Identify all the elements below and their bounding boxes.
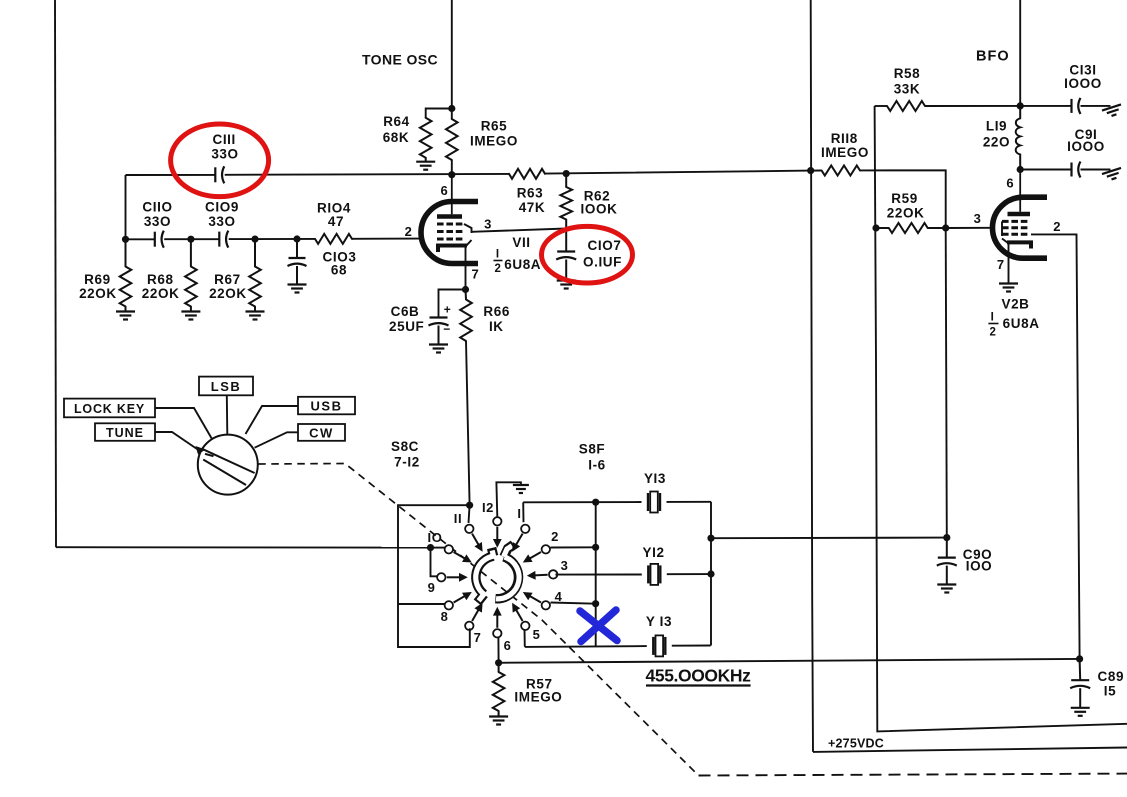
svg-text:7-I2: 7-I2 (394, 454, 420, 469)
tube V11 plate (pin 6) (437, 214, 462, 219)
svg-text:S8F: S8F (579, 442, 606, 457)
svg-text:IMEGO: IMEGO (470, 134, 518, 149)
wire contact 8 stub (398, 603, 445, 605)
wire S8F vertical (595, 502, 597, 646)
resistor R62 (565, 174, 567, 187)
tube V11 envelope (421, 202, 478, 264)
wire S8C left box (398, 505, 470, 647)
svg-text:USB: USB (311, 399, 343, 414)
junction node contact6/R57 (495, 659, 502, 666)
wire C91 to ground (1081, 169, 1111, 171)
wire contact 5 stub (524, 629, 526, 647)
svg-text:LI9: LI9 (986, 119, 1007, 134)
svg-text:IOO: IOO (966, 559, 993, 574)
tube V2B plate (pin 6) (1008, 212, 1031, 217)
svg-text:6U8A: 6U8A (1003, 316, 1040, 331)
svg-text:CIO7: CIO7 (588, 238, 622, 253)
capacitor C91 (1072, 162, 1081, 178)
junction node C90 top (943, 534, 950, 541)
capacitor C107 (565, 229, 567, 252)
wire left border vertical (55, 0, 56, 547)
blue X annotation (580, 610, 617, 642)
svg-text:S8C: S8C (391, 439, 419, 454)
svg-text:8: 8 (441, 609, 449, 624)
svg-text:II: II (454, 511, 462, 526)
svg-text:7: 7 (471, 267, 479, 282)
wire R59 to V2B pin 3 (946, 227, 990, 229)
svg-text:V2B: V2B (1001, 297, 1029, 312)
svg-text:33O: 33O (211, 147, 238, 162)
capacitor C6B (429, 318, 449, 326)
junction node R59 right (942, 224, 949, 231)
svg-text:68: 68 (331, 263, 347, 278)
ground under C90 (937, 585, 956, 593)
wire crystal bottom row (Y13) (525, 646, 711, 647)
crystal Y13 top (648, 492, 660, 513)
label box TUNE (95, 423, 155, 441)
svg-text:33O: 33O (208, 214, 235, 229)
capacitor C110 (155, 231, 164, 248)
svg-text:R68: R68 (147, 272, 174, 287)
ground under R69 (116, 312, 135, 320)
leader CW (255, 432, 298, 447)
svg-text:22OK: 22OK (79, 286, 117, 301)
resistor R65 (446, 119, 458, 160)
junction node C89 top (1076, 655, 1083, 662)
resistor R59 (876, 227, 889, 229)
svg-text:6U8A: 6U8A (504, 257, 541, 272)
svg-text:R63: R63 (517, 186, 544, 201)
svg-text:6: 6 (1006, 176, 1014, 191)
capacitor C131 (1072, 98, 1081, 114)
wire contact 12 to ground (496, 482, 521, 517)
resistor R63 (509, 169, 545, 179)
svg-text:RII8: RII8 (831, 131, 858, 146)
wire R66 to S8C contact 11 (466, 341, 470, 505)
wire crystal bus to C90 (711, 537, 947, 540)
svg-text:6: 6 (504, 638, 512, 653)
svg-text:TONE OSC: TONE OSC (362, 52, 438, 68)
junction node Y12 right (707, 570, 714, 577)
svg-text:VII: VII (512, 235, 530, 250)
svg-text:33K: 33K (894, 82, 921, 97)
label box CW (298, 424, 345, 441)
wire pin7 to C6B (439, 290, 466, 318)
wire C111 branch vertical (125, 175, 127, 239)
wire BFO left vertical (+275VDC feed) (811, 0, 813, 752)
svg-text:7: 7 (474, 630, 482, 645)
leader USB (246, 406, 299, 434)
wire crystal middle row (Y12) (555, 573, 711, 576)
junction node R64/R65 top (448, 105, 455, 112)
svg-text:YI2: YI2 (643, 545, 665, 560)
leader LSB (226, 395, 229, 434)
svg-text:Y I3: Y I3 (646, 614, 672, 629)
svg-text:LSB: LSB (211, 379, 242, 394)
svg-text:+: + (444, 303, 452, 317)
wire V11 pin3 to C107 (472, 229, 567, 232)
resistor R67 (254, 239, 256, 266)
capacitor C109 (219, 231, 228, 248)
svg-text:R58: R58 (894, 66, 921, 81)
svg-text:2: 2 (405, 224, 413, 239)
svg-text:5: 5 (533, 627, 541, 642)
tube V2B envelope (992, 197, 1047, 258)
svg-text:I: I (517, 506, 521, 521)
svg-text:I5: I5 (1104, 683, 1116, 698)
svg-text:O.IUF: O.IUF (583, 254, 622, 269)
svg-text:I2: I2 (482, 500, 494, 515)
svg-text:47K: 47K (519, 200, 546, 215)
resistor R64 (420, 118, 432, 158)
ground under R68 (181, 312, 200, 320)
svg-text:I: I (496, 249, 500, 261)
wire C131 to ground (1081, 105, 1111, 107)
label box USB (298, 397, 355, 415)
capacitor C90 (946, 538, 948, 558)
wire C131 stub (1020, 105, 1071, 107)
svg-text:R69: R69 (84, 272, 111, 287)
svg-text:IOOK: IOOK (581, 201, 618, 216)
label box LSB (199, 377, 253, 396)
svg-text:CIIO: CIIO (142, 200, 172, 215)
svg-text:C89: C89 (1098, 669, 1125, 684)
svg-text:R66: R66 (483, 304, 510, 319)
wire V2B cathode to ground (1008, 242, 1010, 283)
junction node contact4/S8F vertical (592, 600, 599, 607)
tube V2B grid bracket (1002, 221, 1008, 243)
wire R118/R58 vertical (875, 106, 876, 360)
rotary switch contacts with arrows (493, 517, 501, 525)
capacitor C89 (1079, 659, 1082, 680)
wire R59 right vertical to C90 (946, 228, 947, 538)
wire contact 4 stub (551, 603, 596, 604)
knob pointer tip (196, 446, 206, 455)
svg-text:22O: 22O (983, 135, 1010, 150)
wire contact 2 stub (551, 546, 596, 548)
wire +275VDC rail (813, 748, 1127, 752)
ground under R67 (246, 312, 265, 320)
inductor L19 (1016, 106, 1021, 170)
svg-text:R64: R64 (383, 114, 410, 129)
svg-text:22OK: 22OK (142, 286, 180, 301)
junction node crystal bus to C90 (707, 535, 714, 542)
junction node lead/contact 10 (427, 544, 434, 551)
svg-text:47: 47 (328, 214, 344, 229)
wire main bus (C111 to R118) (126, 171, 811, 175)
resistor R104 (315, 234, 352, 244)
svg-text:CW: CW (309, 425, 334, 440)
svg-text:9: 9 (428, 580, 436, 595)
wire contact 10 stub (431, 547, 446, 549)
wire contact 1 stub (522, 502, 524, 522)
svg-text:68K: 68K (383, 130, 410, 145)
knob circle (198, 435, 258, 495)
dashed wire knob to wafer and bottom right (258, 464, 698, 776)
red circle annotation around C111 (171, 124, 269, 197)
ground at C91 (1102, 168, 1123, 182)
svg-text:TUNE: TUNE (106, 426, 144, 440)
leader LOCK KEY (155, 408, 212, 439)
junction node S8F top (592, 499, 599, 506)
wire crystal right vertical (710, 502, 712, 646)
tube V11 grid dashes (437, 224, 462, 239)
wire C91 stub (1020, 169, 1071, 171)
svg-text:2: 2 (551, 529, 559, 544)
junction node bus/V11 plate (448, 171, 455, 178)
tube V11 cathode (438, 246, 467, 253)
svg-text:2: 2 (990, 327, 997, 339)
ground under C6B (429, 345, 448, 353)
tube V2B cathode (1007, 242, 1031, 248)
junction node C103 (293, 235, 300, 242)
leader TUNE (155, 432, 197, 449)
resistor R57 (498, 663, 500, 672)
svg-text:I-6: I-6 (588, 458, 606, 473)
svg-text:33O: 33O (144, 214, 171, 229)
wire R118 to R59 corner (860, 170, 946, 228)
svg-text:+275VDC: +275VDC (828, 737, 884, 751)
ground under R57 (489, 717, 508, 725)
wire V2B pin 2 (1031, 234, 1080, 659)
junction node C110-C109 (187, 236, 194, 243)
wire R64 top stub (426, 109, 452, 118)
svg-text:CIII: CIII (212, 132, 235, 147)
ground under C103 (288, 285, 307, 293)
knob pointer bar (202, 449, 255, 485)
junction node R66/contact11 (466, 502, 473, 509)
svg-text:R67: R67 (214, 272, 241, 287)
ground under C107 (557, 281, 576, 289)
capacitor C111 (215, 166, 224, 183)
wire 455KHz output line (499, 659, 1080, 663)
svg-text:455.OOOKHz: 455.OOOKHz (646, 666, 752, 686)
ground at S8F contact 12 (513, 485, 529, 493)
svg-text:YI3: YI3 (644, 471, 666, 486)
wire contact 11 stub (469, 505, 470, 523)
wire crystal top row (523, 501, 711, 504)
wire V11 plate supply vertical (451, 0, 453, 119)
junction node C109-R67 (251, 236, 258, 243)
svg-text:3: 3 (974, 211, 982, 226)
svg-text:IOOO: IOOO (1067, 139, 1105, 154)
svg-text:IMEGO: IMEGO (821, 145, 869, 160)
ground under R64 (416, 162, 435, 170)
svg-text:IMEGO: IMEGO (514, 690, 562, 705)
junction node R59 left (872, 224, 879, 231)
junction node V11 pin 7 (462, 286, 469, 293)
wire contact 6 stub (497, 637, 499, 663)
crystal Y13 bottom (653, 635, 665, 656)
svg-text:3: 3 (484, 217, 492, 232)
svg-text:R59: R59 (891, 191, 918, 206)
junction node L19/C91/V2B plate (1017, 166, 1024, 173)
svg-text:7: 7 (997, 257, 1005, 272)
junction node R63/R62 (563, 170, 570, 177)
junction node contact2/S8F vertical (592, 544, 599, 551)
wire long lead to S8C contact 10 (56, 546, 431, 548)
junction node bus-left (122, 236, 129, 243)
svg-text:CIO9: CIO9 (205, 200, 239, 215)
svg-text:IO: IO (428, 530, 443, 545)
svg-text:6: 6 (440, 183, 448, 198)
svg-text:3: 3 (561, 558, 569, 573)
wire R58 R59 vertical lower half (876, 360, 1127, 731)
wire contact 9 tie (431, 548, 438, 577)
wire V11 cathode to pin 7 (465, 246, 467, 290)
svg-text:IK: IK (489, 319, 504, 334)
svg-text:I: I (991, 312, 995, 324)
svg-text:R65: R65 (481, 119, 508, 134)
ground at C131 (1102, 104, 1123, 118)
ground under C89 (1071, 708, 1090, 716)
crystal Y12 (648, 564, 660, 585)
svg-text:2: 2 (495, 263, 502, 275)
wire BFO plate supply vertical (1019, 0, 1021, 106)
svg-text:BFO: BFO (976, 49, 1010, 65)
resistor R68 (190, 239, 192, 266)
svg-text:C6B: C6B (391, 304, 420, 319)
svg-text:IOOO: IOOO (1064, 76, 1102, 91)
junction node R118 left (807, 167, 814, 174)
svg-text:22OK: 22OK (887, 205, 925, 220)
rotary switch rotor wipers S8C/S8F (476, 556, 494, 594)
svg-text:−: − (443, 322, 451, 336)
label box LOCK KEY (64, 399, 155, 418)
resistor R66 (465, 290, 468, 300)
svg-text:2: 2 (1053, 219, 1061, 234)
tube V11 screen bracket to pin 3 (464, 224, 472, 246)
tube V2B grid dashes (1002, 221, 1027, 234)
capacitor C103 (296, 239, 298, 258)
svg-text:LOCK KEY: LOCK KEY (74, 402, 145, 416)
resistor R118 (811, 170, 822, 172)
junction node R58/L19/C131 (1017, 102, 1024, 109)
red circle annotation around C107 (542, 226, 633, 283)
ground at V2B cathode (999, 284, 1018, 292)
resistor R58 (875, 105, 887, 107)
resistor R69 (125, 239, 127, 266)
svg-text:22OK: 22OK (209, 286, 247, 301)
svg-text:25UF: 25UF (389, 319, 424, 334)
wire lower bus (grid line to V11 pin 2) (126, 238, 421, 241)
